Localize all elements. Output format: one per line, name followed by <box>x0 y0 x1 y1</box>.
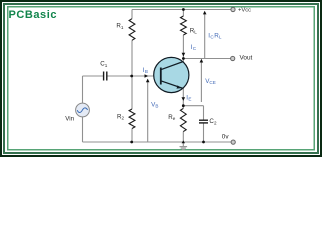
svg-text:B: B <box>155 104 158 109</box>
svg-text:Vin: Vin <box>65 116 74 123</box>
svg-text:L: L <box>219 35 222 40</box>
svg-text:1: 1 <box>121 25 124 30</box>
svg-text:Vout: Vout <box>240 55 253 62</box>
svg-text:B: B <box>145 69 148 74</box>
svg-text:+Vcc: +Vcc <box>238 7 251 13</box>
svg-text:CE: CE <box>209 80 215 85</box>
svg-text:PCBasic: PCBasic <box>9 9 57 21</box>
svg-text:L: L <box>194 30 197 35</box>
svg-text:e: e <box>173 116 176 121</box>
svg-text:2: 2 <box>214 120 217 125</box>
svg-text:2: 2 <box>122 116 125 121</box>
svg-text:0v: 0v <box>222 134 230 141</box>
svg-text:1: 1 <box>105 63 108 68</box>
svg-text:E: E <box>188 97 191 102</box>
